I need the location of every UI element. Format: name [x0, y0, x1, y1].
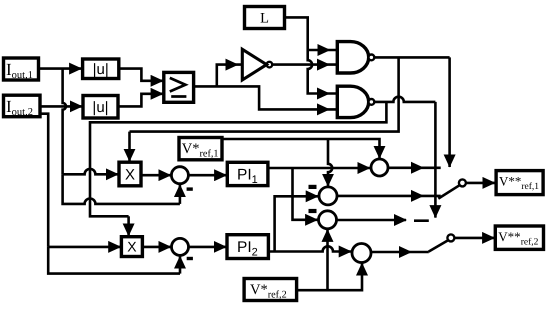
- svg-text:|u|: |u|: [93, 61, 109, 78]
- svg-text:|u|: |u|: [92, 99, 108, 116]
- svg-text:L: L: [260, 11, 269, 27]
- svg-text:X: X: [127, 239, 137, 255]
- svg-text:X: X: [125, 167, 135, 184]
